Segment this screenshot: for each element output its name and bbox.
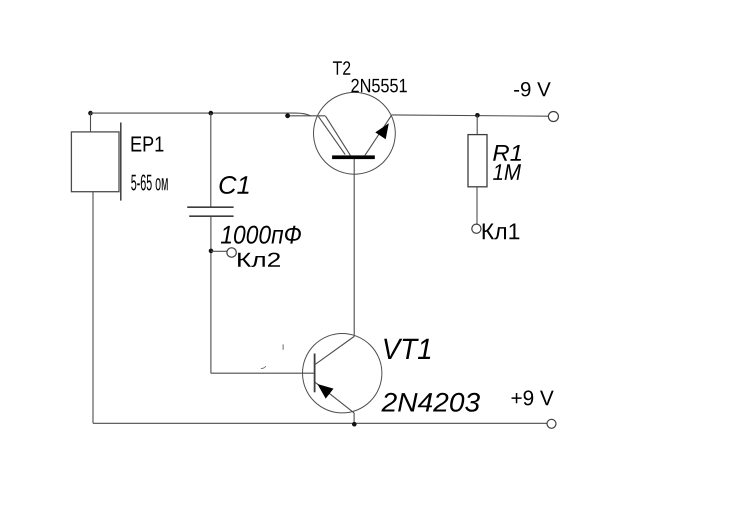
speaker EP1 (piezo plate line) [120, 123, 122, 201]
label EP1 [132, 137, 164, 152]
transistor VT1 (emitter lead) [315, 382, 354, 413]
label 2N4203 [381, 393, 480, 412]
wire (to VT1 base) [211, 372, 314, 374]
transistor T2 (collector double line, segment 1) [318, 116, 345, 154]
transistor T2 (collector double line, segment 2) [325, 116, 350, 155]
speaker EP1 (body rectangle) [71, 132, 119, 192]
stray mark (small vertical tick) [282, 344, 284, 349]
transistor VT1 (collector lead) [315, 337, 354, 365]
label C1 [220, 176, 249, 194]
node dot (on base entry segment) [285, 113, 290, 118]
label T2 [333, 61, 350, 75]
capacitor C1 (top plate) [187, 206, 233, 208]
wire (VT1 emitter to bottom rail) [353, 413, 355, 423]
label Кл1 [483, 224, 520, 240]
transistor T2 (base bar, thick) [332, 155, 375, 159]
junction dot (R1 top) [475, 113, 480, 118]
wire (C1 bottom lead down) [210, 217, 212, 373]
transistor VT1 (base bar) [314, 354, 316, 393]
junction dot (VT1 emitter on bottom rail) [352, 422, 357, 427]
terminal Кл1 (open circle) [472, 224, 481, 233]
value label 1M [493, 164, 521, 180]
wire (T2 emitter to -9V terminal and R1) [392, 115, 548, 116]
transistor VT1 (emitter arrow) [317, 384, 333, 399]
capacitor C1 (bottom plate) [189, 215, 233, 217]
label R1 [493, 145, 521, 161]
label -9 V [514, 82, 551, 96]
resistor R1 (body) [468, 135, 487, 187]
node dot (top-left, EP1 top junction) [88, 111, 93, 116]
terminal Кл2 (open circle) [227, 248, 236, 257]
junction dot (Кл2 tap) [209, 249, 214, 254]
transistor VT1 (circle) [303, 334, 382, 413]
wire (vertical link T2 base bar to VT1 collector) [353, 159, 355, 337]
wire (top rail from EP1 to T2 base, with curl at end) [91, 113, 312, 116]
wire (R1 top lead) [476, 115, 478, 134]
wire (bottom rail) [93, 422, 547, 424]
terminal -9V (open circle) [548, 112, 558, 122]
transistor T2 (emitter arrow) [375, 123, 389, 139]
stray mark (small tilde squiggle) [261, 366, 266, 368]
transistor T2 (emitter lead) [365, 115, 392, 156]
junction dot (top rail / C1 top) [209, 111, 214, 116]
label VT1 [384, 339, 430, 359]
wire (short base entry segment into T2) [287, 115, 325, 117]
wire (EP1 bottom lead down to bottom rail) [92, 192, 94, 424]
wire (EP1 top lead) [90, 113, 92, 132]
label 2N5551 [351, 79, 406, 93]
label Кл2 [238, 253, 280, 267]
terminal +9V (open circle) [547, 419, 556, 428]
value label 1000пФ [221, 226, 301, 244]
transistor T2 (circle) [314, 92, 396, 174]
wire (stub to Кл2 terminal) [211, 250, 227, 252]
wire (R1 bottom lead) [476, 187, 478, 225]
label +9 V [512, 390, 554, 405]
value label 5-65 ом [131, 175, 168, 191]
wire (C1 top lead) [210, 113, 212, 206]
